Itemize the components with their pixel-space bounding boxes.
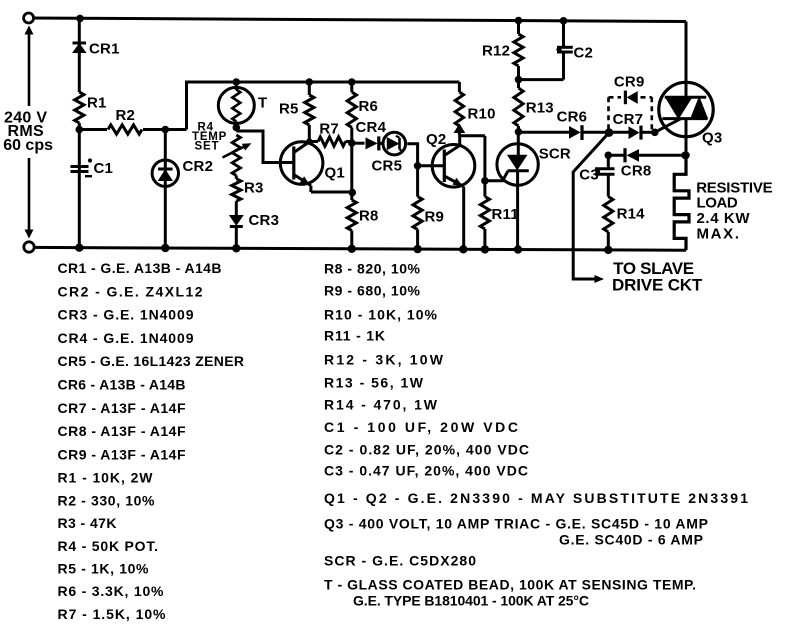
svg-text:R3: R3 bbox=[244, 180, 264, 197]
svg-text:SCR: SCR bbox=[539, 146, 571, 163]
svg-text:R13: R13 bbox=[526, 100, 554, 117]
svg-text:R7: R7 bbox=[319, 121, 339, 138]
svg-text:CR9 - A13F - A14F: CR9 - A13F - A14F bbox=[58, 446, 186, 462]
svg-text:C1: C1 bbox=[94, 160, 114, 177]
svg-text:G.E. TYPE B1810401 - 100K AT 2: G.E. TYPE B1810401 - 100K AT 25°C bbox=[353, 593, 589, 609]
svg-text:CR7 - A13F - A14F: CR7 - A13F - A14F bbox=[58, 400, 186, 416]
svg-text:R2 - 330, 10%: R2 - 330, 10% bbox=[58, 492, 156, 508]
svg-text:R7 - 1.5K, 10%: R7 - 1.5K, 10% bbox=[58, 606, 167, 622]
svg-text:Q2: Q2 bbox=[426, 131, 446, 148]
svg-text:T: T bbox=[258, 95, 267, 112]
svg-text:C3 - 0.47 UF, 20%, 400 VDC: C3 - 0.47 UF, 20%, 400 VDC bbox=[324, 463, 528, 479]
svg-text:CR9: CR9 bbox=[614, 74, 645, 91]
svg-text:R1 - 10K, 2W: R1 - 10K, 2W bbox=[58, 470, 154, 486]
svg-text:R8 - 820, 10%: R8 - 820, 10% bbox=[324, 261, 421, 277]
svg-text:R10: R10 bbox=[468, 106, 496, 123]
svg-text:CR5 - G.E. 16L1423 ZENER: CR5 - G.E. 16L1423 ZENER bbox=[58, 353, 245, 369]
svg-text:Q3: Q3 bbox=[702, 130, 722, 147]
svg-text:DRIVE CKT: DRIVE CKT bbox=[612, 276, 703, 295]
svg-text:CR1 - G.E. A13B - A14B: CR1 - G.E. A13B - A14B bbox=[58, 260, 222, 276]
svg-text:CR3 - G.E. 1N4009: CR3 - G.E. 1N4009 bbox=[58, 307, 194, 323]
svg-text:R3 - 47K: R3 - 47K bbox=[58, 515, 117, 531]
svg-text:R6 - 3.3K, 10%: R6 - 3.3K, 10% bbox=[58, 583, 165, 599]
svg-text:T - GLASS COATED BEAD, 100K AT: T - GLASS COATED BEAD, 100K AT SENSING T… bbox=[324, 577, 696, 593]
svg-text:CR7: CR7 bbox=[613, 111, 644, 128]
svg-text:CR4 - G.E. 1N4009: CR4 - G.E. 1N4009 bbox=[58, 330, 194, 346]
svg-text:CR5: CR5 bbox=[372, 158, 403, 175]
svg-text:CR8 - A13F - A14F: CR8 - A13F - A14F bbox=[58, 423, 186, 439]
svg-text:R8: R8 bbox=[359, 208, 379, 225]
svg-text:R14: R14 bbox=[617, 206, 646, 223]
svg-text:CR1: CR1 bbox=[89, 41, 120, 58]
svg-text:C2 - 0.82 UF, 20%, 400 VDC: C2 - 0.82 UF, 20%, 400 VDC bbox=[324, 442, 529, 458]
svg-text:R6: R6 bbox=[359, 98, 379, 115]
svg-text:R2: R2 bbox=[116, 107, 136, 124]
svg-text:CR6 - A13B - A14B: CR6 - A13B - A14B bbox=[58, 377, 186, 393]
svg-text:Q3 - 400 VOLT, 10 AMP TRIAC -: Q3 - 400 VOLT, 10 AMP TRIAC - G.E. SC45D… bbox=[324, 516, 708, 532]
svg-text:CR8: CR8 bbox=[621, 163, 652, 180]
svg-text:R1: R1 bbox=[87, 95, 107, 112]
svg-text:G.E. SC40D - 6 AMP: G.E. SC40D - 6 AMP bbox=[559, 532, 703, 548]
svg-text:CR6: CR6 bbox=[557, 109, 588, 126]
svg-text:CR4: CR4 bbox=[356, 119, 387, 136]
svg-text:SET: SET bbox=[195, 141, 220, 153]
svg-text:R12: R12 bbox=[482, 43, 510, 60]
svg-text:R11: R11 bbox=[492, 206, 519, 223]
svg-text:R13 - 56, 1W: R13 - 56, 1W bbox=[324, 375, 424, 391]
svg-text:CR2: CR2 bbox=[183, 158, 214, 175]
svg-text:R11 - 1K: R11 - 1K bbox=[324, 328, 385, 344]
svg-text:R9 - 680, 10%: R9 - 680, 10% bbox=[324, 283, 421, 299]
svg-text:R5: R5 bbox=[279, 101, 299, 118]
svg-text:SCR - G.E. C5DX280: SCR - G.E. C5DX280 bbox=[324, 553, 476, 569]
svg-text:C2: C2 bbox=[574, 45, 594, 62]
svg-text:R14 - 470, 1W: R14 - 470, 1W bbox=[324, 397, 438, 413]
svg-text:C1 - 100 UF, 20W VDC: C1 - 100 UF, 20W VDC bbox=[324, 419, 518, 435]
svg-text:Q1: Q1 bbox=[325, 165, 345, 182]
svg-text:CR3: CR3 bbox=[249, 212, 280, 229]
svg-text:R5 - 1K, 10%: R5 - 1K, 10% bbox=[58, 561, 150, 577]
svg-text:C3: C3 bbox=[579, 167, 599, 184]
svg-text:R4 - 50K POT.: R4 - 50K POT. bbox=[58, 538, 159, 554]
svg-text:MAX.: MAX. bbox=[697, 225, 740, 242]
svg-text:R10 - 10K, 10%: R10 - 10K, 10% bbox=[324, 307, 438, 323]
svg-text:R9: R9 bbox=[425, 209, 445, 226]
svg-text:60 cps: 60 cps bbox=[3, 137, 53, 154]
